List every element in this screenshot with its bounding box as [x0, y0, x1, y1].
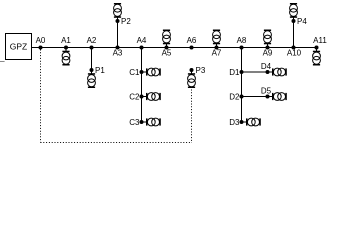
- svg-text:A2: A2: [87, 36, 97, 45]
- svg-text:A11: A11: [313, 36, 327, 45]
- svg-text:A9: A9: [263, 49, 273, 58]
- svg-text:C3: C3: [129, 118, 140, 127]
- svg-text:P4: P4: [297, 17, 307, 26]
- svg-text:GPZ: GPZ: [10, 42, 27, 52]
- svg-text:P3: P3: [196, 66, 206, 75]
- svg-text:A3: A3: [113, 49, 123, 58]
- svg-text:A4: A4: [137, 36, 147, 45]
- svg-text:D5: D5: [261, 87, 272, 96]
- svg-text:D3: D3: [229, 118, 240, 127]
- svg-text:D2: D2: [229, 92, 240, 101]
- svg-text:A6: A6: [187, 36, 197, 45]
- svg-text:P2: P2: [121, 17, 131, 26]
- svg-text:A1: A1: [61, 36, 71, 45]
- svg-text:A8: A8: [237, 36, 247, 45]
- svg-text:P1: P1: [95, 66, 105, 75]
- svg-text:A7: A7: [212, 49, 222, 58]
- svg-text:D4: D4: [261, 62, 272, 71]
- svg-text:C1: C1: [129, 68, 140, 77]
- svg-text:A10: A10: [287, 49, 302, 58]
- svg-text:D1: D1: [229, 68, 240, 77]
- svg-text:C2: C2: [129, 92, 140, 101]
- svg-text:A0: A0: [36, 36, 46, 45]
- svg-text:A5: A5: [162, 49, 172, 58]
